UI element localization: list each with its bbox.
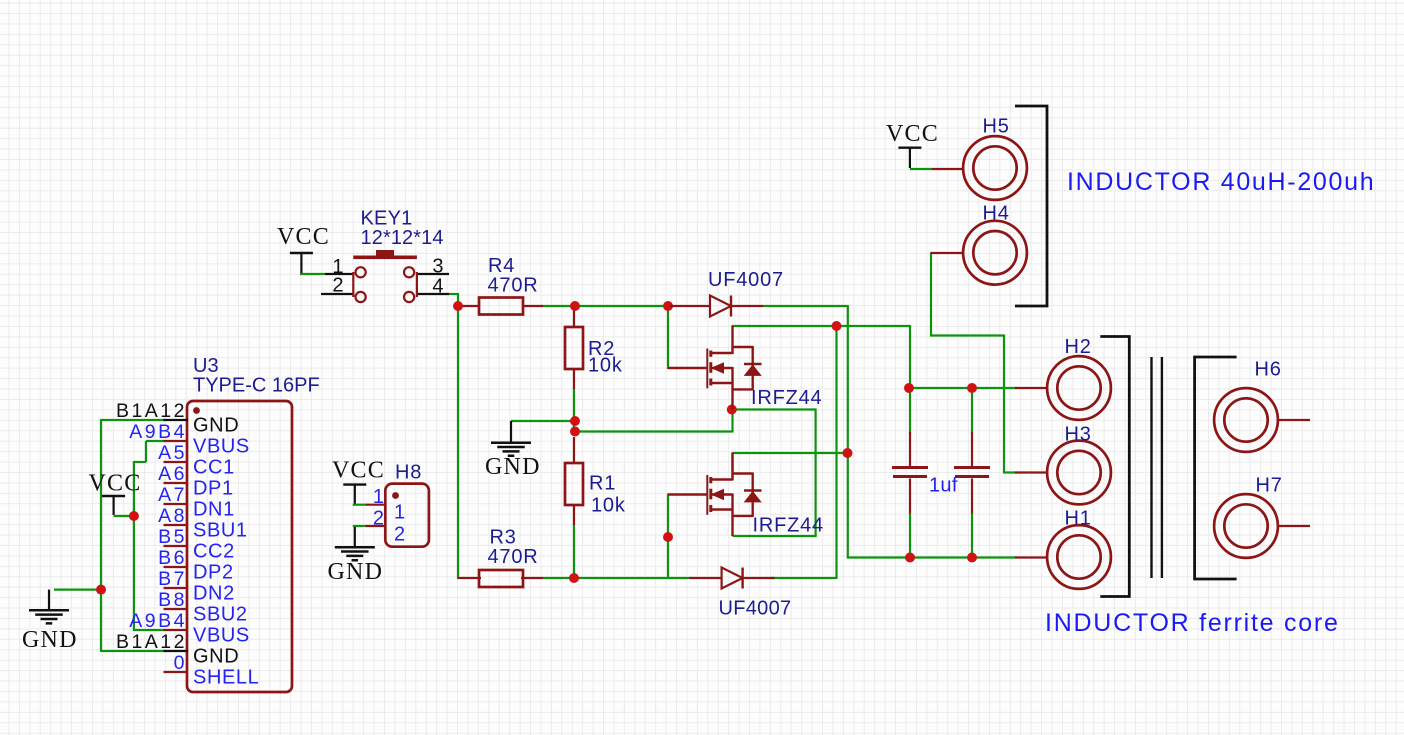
svg-text:H5: H5 bbox=[983, 116, 1010, 138]
svg-text:GND: GND bbox=[22, 627, 78, 653]
svg-text:INDUCTOR ferrite core: INDUCTOR ferrite core bbox=[1045, 609, 1340, 637]
svg-text:B6: B6 bbox=[158, 547, 187, 569]
svg-text:1: 1 bbox=[394, 502, 405, 524]
svg-text:H6: H6 bbox=[1255, 359, 1282, 381]
svg-text:10k: 10k bbox=[591, 495, 626, 517]
svg-text:A9B4: A9B4 bbox=[129, 421, 187, 443]
svg-text:DN2: DN2 bbox=[193, 583, 235, 605]
svg-text:SHELL: SHELL bbox=[193, 667, 259, 689]
svg-text:GND: GND bbox=[193, 646, 239, 668]
svg-text:H2: H2 bbox=[1065, 336, 1092, 358]
svg-text:470R: 470R bbox=[488, 275, 539, 297]
svg-text:UF4007: UF4007 bbox=[719, 598, 792, 620]
svg-text:A8: A8 bbox=[158, 505, 187, 527]
svg-text:B5: B5 bbox=[158, 526, 187, 548]
svg-text:B7: B7 bbox=[158, 568, 187, 590]
svg-text:4: 4 bbox=[432, 276, 443, 298]
svg-text:VBUS: VBUS bbox=[193, 436, 250, 458]
svg-text:VCC: VCC bbox=[332, 458, 385, 484]
svg-text:1uf: 1uf bbox=[929, 475, 958, 497]
svg-text:A7: A7 bbox=[158, 484, 187, 506]
svg-text:H4: H4 bbox=[983, 203, 1010, 225]
svg-text:VCC: VCC bbox=[277, 224, 330, 250]
svg-text:10k: 10k bbox=[588, 355, 623, 377]
svg-text:2: 2 bbox=[332, 275, 343, 297]
svg-text:UF4007: UF4007 bbox=[708, 269, 784, 291]
svg-text:GND: GND bbox=[485, 454, 541, 480]
svg-text:SBU1: SBU1 bbox=[193, 520, 248, 542]
svg-text:DN1: DN1 bbox=[193, 499, 235, 521]
svg-text:B1A12: B1A12 bbox=[116, 631, 187, 653]
svg-text:H7: H7 bbox=[1256, 475, 1283, 497]
svg-text:12*12*14: 12*12*14 bbox=[361, 227, 444, 249]
svg-text:SBU2: SBU2 bbox=[193, 604, 248, 626]
svg-text:CC2: CC2 bbox=[193, 541, 235, 563]
svg-text:VCC: VCC bbox=[886, 121, 939, 147]
svg-text:B8: B8 bbox=[158, 589, 187, 611]
svg-text:R1: R1 bbox=[589, 473, 616, 495]
svg-text:470R: 470R bbox=[488, 546, 539, 568]
svg-text:CC1: CC1 bbox=[193, 457, 235, 479]
svg-text:A6: A6 bbox=[158, 463, 187, 485]
svg-text:H8: H8 bbox=[395, 462, 422, 484]
svg-text:B1A12: B1A12 bbox=[116, 400, 187, 422]
svg-text:INDUCTOR 40uH-200uh: INDUCTOR 40uH-200uh bbox=[1067, 168, 1375, 196]
svg-text:2: 2 bbox=[394, 524, 405, 546]
svg-text:TYPE-C 16PF: TYPE-C 16PF bbox=[193, 375, 320, 397]
svg-text:IRFZ44: IRFZ44 bbox=[751, 387, 822, 409]
svg-text:VCC: VCC bbox=[89, 471, 142, 497]
svg-text:3: 3 bbox=[432, 256, 443, 278]
svg-text:A5: A5 bbox=[158, 442, 187, 464]
svg-text:H3: H3 bbox=[1065, 424, 1092, 446]
svg-text:GND: GND bbox=[328, 559, 384, 585]
svg-text:GND: GND bbox=[193, 415, 239, 437]
svg-text:IRFZ44: IRFZ44 bbox=[753, 515, 824, 537]
svg-text:DP2: DP2 bbox=[193, 562, 234, 584]
svg-text:VBUS: VBUS bbox=[193, 625, 250, 647]
svg-text:H1: H1 bbox=[1065, 508, 1092, 530]
svg-text:0: 0 bbox=[174, 652, 187, 674]
svg-text:DP1: DP1 bbox=[193, 478, 234, 500]
svg-text:1: 1 bbox=[373, 486, 384, 508]
svg-text:2: 2 bbox=[373, 508, 384, 530]
svg-text:A9B4: A9B4 bbox=[129, 610, 187, 632]
